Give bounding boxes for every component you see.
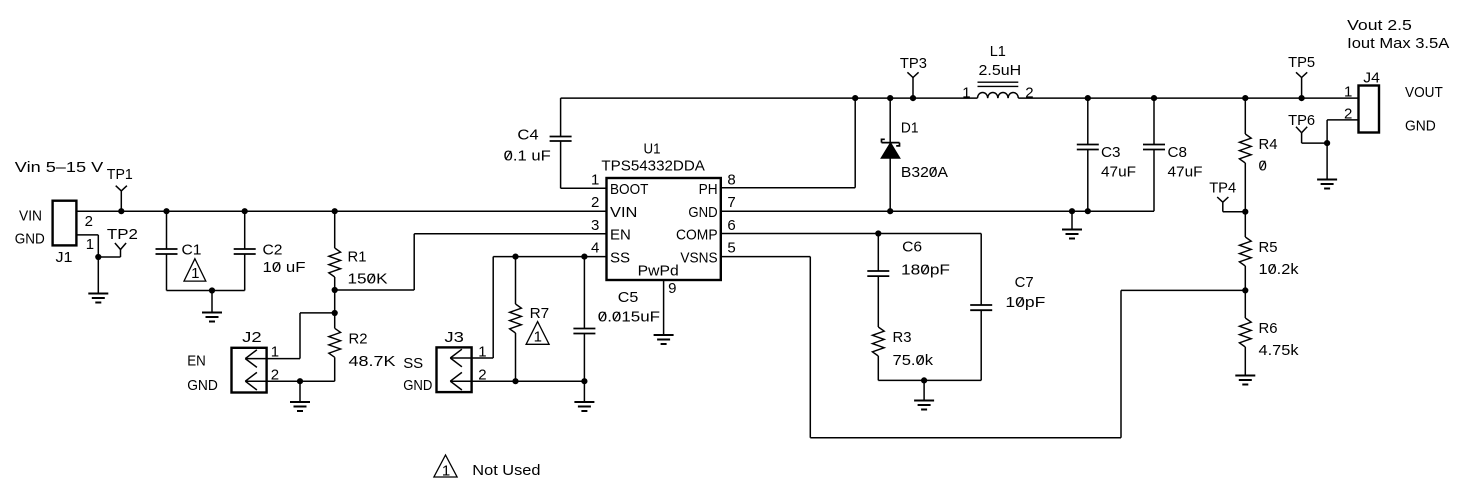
svg-text:TP6: TP6	[1288, 112, 1315, 129]
svg-text:48.7K: 48.7K	[349, 353, 396, 370]
svg-text:Vin 5–15 V: Vin 5–15 V	[15, 159, 103, 176]
svg-text:C6: C6	[902, 239, 922, 256]
svg-text:R2: R2	[349, 331, 368, 348]
svg-text:TP5: TP5	[1288, 54, 1315, 71]
svg-text:C4: C4	[517, 127, 538, 144]
svg-text:6: 6	[727, 217, 735, 234]
svg-text:VIN: VIN	[19, 208, 42, 225]
svg-text:VOUT: VOUT	[1405, 84, 1443, 101]
svg-text:TP4: TP4	[1209, 180, 1236, 197]
svg-text:C1: C1	[182, 242, 202, 259]
svg-text:TPS54332DDA: TPS54332DDA	[601, 158, 705, 175]
svg-text:L1: L1	[990, 43, 1006, 60]
svg-text:1: 1	[534, 328, 542, 345]
svg-text:3: 3	[591, 217, 599, 234]
svg-text:VIN: VIN	[610, 204, 637, 221]
svg-text:PH: PH	[699, 181, 718, 198]
svg-text:D1: D1	[901, 120, 919, 137]
svg-text:2: 2	[1025, 85, 1033, 102]
svg-text:GND: GND	[688, 204, 717, 221]
svg-text:J4: J4	[1363, 70, 1380, 87]
svg-text:150K: 150K	[348, 271, 388, 288]
svg-text:7: 7	[727, 194, 735, 211]
svg-text:Not Used: Not Used	[472, 462, 540, 479]
svg-text:10 uF: 10 uF	[263, 259, 306, 276]
svg-text:GND: GND	[187, 377, 218, 394]
svg-text:R1: R1	[348, 249, 367, 266]
svg-text:1: 1	[962, 85, 970, 102]
svg-text:1: 1	[442, 463, 450, 480]
svg-text:4: 4	[591, 240, 599, 257]
svg-text:1: 1	[191, 265, 199, 282]
svg-text:8: 8	[727, 171, 735, 188]
svg-text:9: 9	[668, 280, 676, 297]
svg-text:C2: C2	[263, 242, 283, 259]
svg-text:GND: GND	[403, 377, 432, 394]
svg-text:R7: R7	[530, 305, 550, 322]
svg-text:BOOT: BOOT	[610, 181, 648, 198]
svg-text:1: 1	[591, 171, 599, 188]
svg-text:C7: C7	[1015, 274, 1034, 291]
svg-text:0.015uF: 0.015uF	[598, 309, 660, 326]
svg-text:75.0k: 75.0k	[893, 352, 934, 369]
svg-text:PwPd: PwPd	[638, 263, 679, 280]
svg-text:COMP: COMP	[676, 227, 718, 244]
svg-text:R5: R5	[1259, 239, 1278, 256]
svg-text:GND: GND	[1405, 117, 1436, 134]
svg-text:4.75k: 4.75k	[1259, 342, 1300, 359]
svg-text:R4: R4	[1259, 136, 1278, 153]
svg-text:C8: C8	[1168, 144, 1188, 161]
svg-text:J2: J2	[242, 329, 262, 346]
svg-text:47uF: 47uF	[1168, 164, 1203, 181]
svg-text:Vout 2.5: Vout 2.5	[1347, 17, 1412, 34]
svg-text:10.2k: 10.2k	[1259, 261, 1300, 278]
svg-text:180pF: 180pF	[901, 262, 950, 279]
svg-text:10pF: 10pF	[1005, 294, 1045, 311]
svg-text:C3: C3	[1101, 144, 1121, 161]
svg-text:SS: SS	[610, 249, 630, 266]
svg-text:C5: C5	[618, 289, 639, 306]
svg-text:2: 2	[85, 213, 93, 230]
svg-text:SS: SS	[403, 355, 423, 372]
svg-text:VSNS: VSNS	[680, 249, 717, 266]
svg-text:TP3: TP3	[900, 55, 927, 72]
svg-text:TP2: TP2	[107, 226, 138, 243]
svg-text:TP1: TP1	[107, 166, 133, 183]
svg-text:U1: U1	[644, 141, 661, 158]
svg-text:R6: R6	[1259, 320, 1278, 337]
svg-text:1: 1	[86, 236, 94, 253]
svg-text:Iout Max 3.5A: Iout Max 3.5A	[1347, 35, 1449, 52]
svg-text:J3: J3	[444, 329, 464, 346]
svg-text:5: 5	[727, 240, 735, 257]
svg-text:J1: J1	[56, 249, 73, 266]
svg-text:EN: EN	[187, 353, 206, 370]
svg-text:R3: R3	[893, 329, 912, 346]
svg-text:EN: EN	[610, 227, 631, 244]
svg-text:2: 2	[591, 194, 599, 211]
svg-text:1: 1	[1344, 84, 1352, 101]
svg-text:1: 1	[271, 343, 279, 360]
svg-text:47uF: 47uF	[1101, 164, 1136, 181]
svg-text:2.5uH: 2.5uH	[979, 62, 1022, 79]
svg-text:B320A: B320A	[901, 164, 948, 181]
svg-text:0.1 uF: 0.1 uF	[504, 148, 551, 165]
svg-text:GND: GND	[15, 231, 45, 248]
